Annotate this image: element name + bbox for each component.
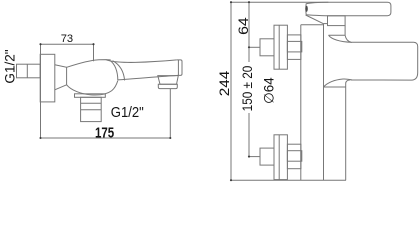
top hex nut xyxy=(287,35,301,60)
lever handle xyxy=(306,2,391,16)
crescent arc B xyxy=(113,61,125,81)
dim 73 end dots xyxy=(39,43,94,45)
spout fin top edge xyxy=(329,34,346,36)
body top edge xyxy=(301,24,324,26)
collar left step line xyxy=(324,23,328,25)
bottom flange inner line xyxy=(278,135,280,180)
dim dots xyxy=(248,1,250,158)
thread line 1 xyxy=(81,102,102,104)
top eccentric square xyxy=(260,39,274,56)
tick to bottom eccentric xyxy=(249,156,261,158)
dim 175 line xyxy=(41,137,171,139)
wall flange (escutcheon) xyxy=(40,54,55,102)
crescent arc A (spout root joint) xyxy=(110,60,118,80)
body inner vertical line xyxy=(323,24,325,181)
spout bottom edge xyxy=(118,76,177,80)
top flange inner line xyxy=(278,25,280,69)
bottom flange xyxy=(274,135,287,180)
body lower column right edge with fillet into spout xyxy=(346,80,351,180)
dim 64 / 150±20 line upper segment xyxy=(248,2,250,62)
outlet collar under body xyxy=(75,94,106,98)
bottom eccentric square xyxy=(260,148,274,165)
svg-text:64: 64 xyxy=(235,17,251,35)
dim 244 line xyxy=(230,2,232,180)
svg-text:G1/2": G1/2" xyxy=(111,105,144,121)
dim 244 dots xyxy=(230,1,232,181)
dim 175 end dots xyxy=(39,137,171,139)
svg-text:150 ± 20: 150 ± 20 xyxy=(240,66,255,112)
wall nipple (inlet pipe) xyxy=(17,64,41,78)
thread line 2 xyxy=(81,109,102,111)
fillet top xyxy=(345,35,351,42)
lever pivot pin xyxy=(305,6,307,12)
aerator trapezoid xyxy=(158,76,179,85)
outlet threaded cylinder xyxy=(81,97,102,121)
aerator band xyxy=(158,84,177,88)
svg-text:73: 73 xyxy=(61,33,73,45)
bottom hex nut xyxy=(287,144,301,169)
leader line from aerator to 175 dim xyxy=(169,89,171,138)
top extension line xyxy=(231,1,328,3)
svg-text:244: 244 xyxy=(216,71,232,97)
nipple divider xyxy=(26,64,28,78)
fin right vertical xyxy=(344,26,346,36)
dim 73 line xyxy=(41,43,94,45)
spout slab outline xyxy=(351,42,418,80)
bottom nut mid band xyxy=(287,151,301,162)
top nut mid band xyxy=(287,41,301,52)
fold curve top xyxy=(329,35,353,42)
dim 73 ext line left xyxy=(40,44,42,138)
spout tip cap xyxy=(177,60,182,76)
dim line lower segment xyxy=(248,113,250,157)
top flange xyxy=(274,25,287,69)
collar under lever xyxy=(328,16,346,26)
svg-text:175: 175 xyxy=(95,125,114,141)
cone connector flange-to-body xyxy=(55,65,67,90)
bottom extension line xyxy=(231,179,346,181)
spout top edge xyxy=(106,60,177,63)
fold curve bottom (spout to body transition) xyxy=(324,79,353,87)
body left edge xyxy=(300,25,302,181)
body/spout shadow line xyxy=(324,86,346,88)
tick to top eccentric xyxy=(249,46,260,48)
dim 73 ext line right xyxy=(93,44,95,61)
spout tip cap inner line xyxy=(177,60,179,76)
svg-text:G1/2": G1/2" xyxy=(3,49,18,83)
svg-text:∅64: ∅64 xyxy=(262,77,277,104)
lever base cone diagonal xyxy=(306,15,324,24)
body (egg shape) xyxy=(67,60,118,95)
